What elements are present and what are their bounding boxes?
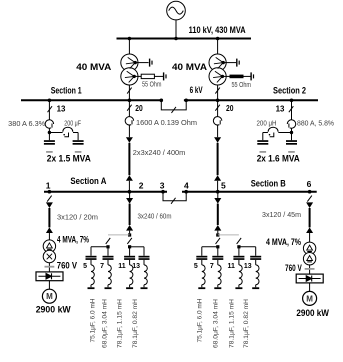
svg-text:Section 1: Section 1	[51, 86, 82, 96]
svg-text:3x240 / 60m: 3x240 / 60m	[138, 213, 172, 220]
svg-text:2: 2	[139, 181, 144, 191]
svg-text:3: 3	[160, 181, 165, 191]
svg-text:2x 1.6 MVA: 2x 1.6 MVA	[257, 153, 300, 163]
svg-text:380 A 6.3%: 380 A 6.3%	[8, 121, 45, 128]
svg-text:Section 2: Section 2	[273, 86, 306, 96]
svg-text:68.0μF, 3.04 mH: 68.0μF, 3.04 mH	[101, 299, 108, 348]
svg-text:55 Ohm: 55 Ohm	[232, 82, 252, 89]
svg-text:40 MVA: 40 MVA	[76, 62, 112, 72]
svg-text:40 MVA: 40 MVA	[172, 62, 208, 72]
svg-text:68.0μF, 3.04 mH: 68.0μF, 3.04 mH	[213, 299, 220, 348]
svg-text:78.1μF, 1.15 mH: 78.1μF, 1.15 mH	[117, 299, 124, 348]
svg-text:78.1μF, 0.82 mH: 78.1μF, 0.82 mH	[243, 299, 250, 348]
svg-text:4: 4	[184, 181, 189, 191]
svg-text:7: 7	[100, 263, 104, 270]
svg-text:1: 1	[46, 181, 51, 191]
svg-text:3x120 / 20m: 3x120 / 20m	[57, 214, 98, 221]
svg-text:78.1μF, 1.15 mH: 78.1μF, 1.15 mH	[228, 299, 235, 348]
svg-text:6: 6	[307, 179, 312, 189]
svg-text:5: 5	[221, 181, 226, 191]
svg-text:4 MVA, 7%: 4 MVA, 7%	[57, 234, 89, 244]
svg-text:200 μH: 200 μH	[257, 121, 277, 128]
svg-text:110 kV, 430 MVA: 110 kV, 430 MVA	[189, 25, 246, 35]
svg-text:13: 13	[57, 103, 66, 113]
svg-text:11: 11	[118, 263, 126, 270]
svg-text:13: 13	[244, 263, 252, 270]
svg-text:5: 5	[194, 263, 198, 270]
svg-text:20: 20	[135, 103, 143, 113]
svg-text:13: 13	[276, 103, 285, 113]
svg-text:5: 5	[83, 263, 87, 270]
svg-text:2x3x240 / 400m: 2x3x240 / 400m	[133, 150, 186, 157]
svg-text:M: M	[306, 294, 313, 303]
svg-text:1600 A 0.139 Ohm: 1600 A 0.139 Ohm	[136, 120, 197, 127]
svg-text:2900 kW: 2900 kW	[36, 305, 71, 315]
svg-text:75.1μF, 6.0 mH: 75.1μF, 6.0 mH	[90, 298, 97, 342]
svg-text:2900 kW: 2900 kW	[296, 308, 329, 318]
svg-text:20: 20	[226, 103, 234, 113]
svg-text:78.1μF, 0.82 mH: 78.1μF, 0.82 mH	[132, 299, 139, 348]
svg-text:11: 11	[227, 263, 235, 270]
svg-text:880 A, 5.8%: 880 A, 5.8%	[297, 121, 334, 128]
svg-text:13: 13	[132, 263, 140, 270]
svg-text:3x120 / 45m: 3x120 / 45m	[262, 212, 301, 219]
svg-text:4 MVA, 7%: 4 MVA, 7%	[266, 237, 301, 247]
svg-text:Section B: Section B	[251, 178, 286, 188]
svg-text:75.1μF, 6.0 mH: 75.1μF, 6.0 mH	[196, 298, 203, 342]
svg-text:Section A: Section A	[70, 176, 106, 186]
svg-text:M: M	[46, 292, 53, 301]
svg-text:760 V: 760 V	[285, 263, 302, 273]
svg-text:55 Ohm: 55 Ohm	[142, 81, 162, 88]
svg-text:200 μF: 200 μF	[64, 121, 81, 128]
svg-text:7: 7	[210, 263, 214, 270]
svg-text:2x 1.5 MVA: 2x 1.5 MVA	[47, 153, 91, 163]
svg-text:6 kV: 6 kV	[190, 85, 203, 95]
svg-text:760 V: 760 V	[57, 261, 77, 271]
